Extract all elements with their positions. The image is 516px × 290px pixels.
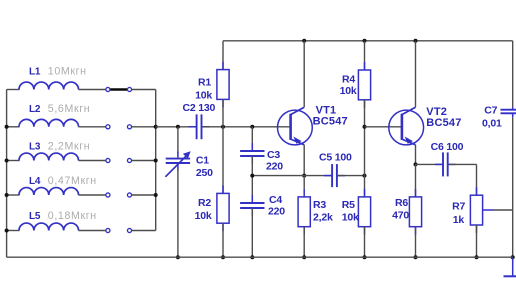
svg-text:250: 250 — [196, 167, 213, 179]
svg-text:10Мкгн: 10Мкгн — [48, 66, 87, 78]
svg-text:1k: 1k — [453, 214, 465, 226]
svg-text:2,2Мкгн: 2,2Мкгн — [48, 140, 90, 152]
svg-text:R2: R2 — [198, 197, 211, 209]
svg-text:10k: 10k — [340, 85, 357, 97]
svg-text:470: 470 — [392, 210, 409, 222]
svg-text:R4: R4 — [342, 74, 355, 86]
svg-text:10k: 10k — [195, 90, 212, 102]
svg-text:L1: L1 — [29, 67, 41, 78]
svg-text:10k: 10k — [342, 211, 359, 223]
svg-text:C5 100: C5 100 — [319, 151, 352, 163]
svg-text:BC547: BC547 — [426, 117, 461, 129]
svg-text:C3: C3 — [267, 149, 280, 161]
svg-text:220: 220 — [268, 206, 285, 218]
svg-text:0,47Мкгн: 0,47Мкгн — [48, 175, 97, 187]
svg-text:C1: C1 — [196, 154, 209, 166]
svg-text:10k: 10k — [195, 210, 212, 222]
svg-text:BC547: BC547 — [313, 115, 348, 127]
svg-text:C2 130: C2 130 — [183, 102, 216, 114]
svg-text:R5: R5 — [342, 199, 355, 211]
svg-text:5,6Мкгн: 5,6Мкгн — [48, 103, 90, 115]
svg-text:C7: C7 — [484, 105, 497, 117]
svg-text:0,01: 0,01 — [482, 118, 502, 130]
svg-text:220: 220 — [266, 161, 283, 173]
svg-text:L2: L2 — [29, 104, 41, 115]
svg-text:R7: R7 — [452, 200, 465, 212]
svg-text:0,18Мкгн: 0,18Мкгн — [48, 210, 97, 222]
svg-text:L3: L3 — [29, 141, 41, 152]
svg-text:R1: R1 — [198, 77, 211, 89]
svg-text:L4: L4 — [29, 176, 41, 187]
svg-text:C6 100: C6 100 — [431, 141, 464, 153]
svg-text:2,2k: 2,2k — [313, 211, 333, 223]
svg-text:L5: L5 — [29, 211, 41, 222]
svg-text:R6: R6 — [395, 197, 408, 209]
svg-text:C4: C4 — [269, 194, 282, 206]
svg-text:R3: R3 — [313, 199, 326, 211]
